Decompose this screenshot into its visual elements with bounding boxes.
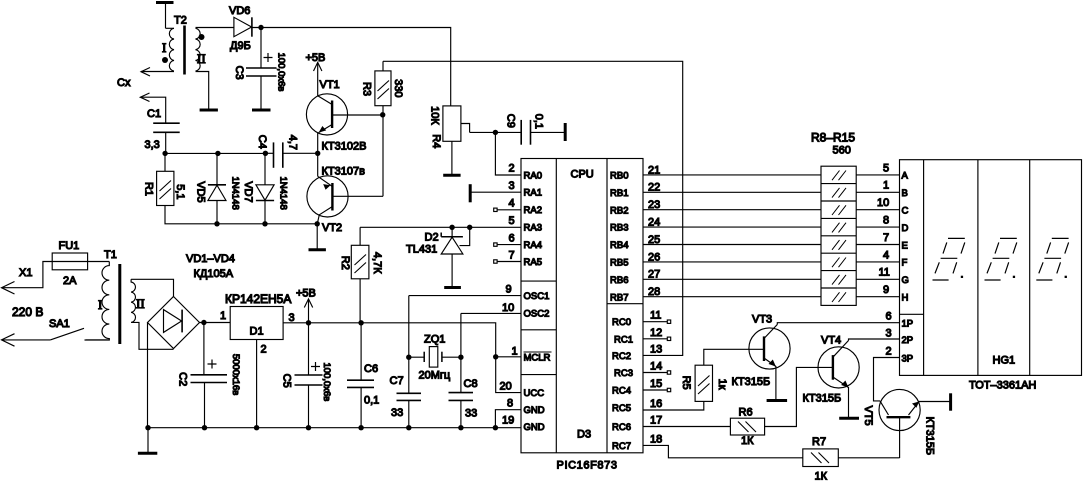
svg-text:D2: D2	[425, 232, 439, 244]
junction C6 on rail	[358, 425, 363, 430]
svg-text:7: 7	[509, 250, 515, 262]
svg-text:27: 27	[648, 269, 660, 281]
capacitor C4	[265, 142, 317, 167]
svg-text:RA3: RA3	[524, 223, 542, 234]
svg-text:24: 24	[648, 217, 660, 229]
svg-text:4: 4	[509, 198, 515, 210]
svg-text:T1: T1	[104, 249, 117, 261]
svg-text:1К: 1К	[815, 471, 828, 483]
svg-text:VD6: VD6	[229, 5, 250, 17]
svg-text:2: 2	[886, 346, 892, 358]
wire VT3 collector to 1P row	[777, 323, 899, 325]
svg-text:28: 28	[648, 286, 660, 298]
wire node row y153	[165, 152, 265, 154]
svg-text:VD5: VD5	[194, 181, 206, 202]
svg-text:11: 11	[879, 267, 890, 279]
svg-text:5: 5	[883, 162, 889, 174]
svg-text:GND: GND	[524, 422, 545, 433]
stub RC1 pin12	[643, 337, 671, 340]
capacitor C6	[347, 323, 374, 428]
junction crystal right / C8	[458, 355, 463, 360]
transformer T1 winding I	[85, 262, 110, 341]
svg-text:RB1: RB1	[610, 188, 628, 199]
svg-text:C1: C1	[147, 108, 161, 120]
svg-text:4,7: 4,7	[287, 135, 299, 150]
svg-text:1: 1	[883, 180, 889, 192]
MCU D3 box	[521, 159, 643, 453]
svg-text:RC4: RC4	[612, 386, 631, 397]
junction TL431 cathode on RA3 row	[449, 225, 454, 230]
svg-text:10К: 10К	[429, 106, 441, 125]
svg-text:RC5: RC5	[612, 403, 631, 414]
transistor VT2	[307, 153, 383, 224]
svg-text:UCC: UCC	[524, 388, 545, 399]
svg-text:VD1–VD4: VD1–VD4	[186, 253, 235, 265]
svg-text:1к: 1к	[716, 379, 728, 390]
junction C1 bottom	[162, 151, 167, 156]
svg-text:VT5: VT5	[862, 406, 874, 426]
wire T2 winding II bottom to ground	[196, 72, 209, 110]
stub RC3 pin14	[643, 371, 671, 374]
svg-text:GND: GND	[524, 405, 545, 416]
wire GND pin8	[495, 410, 521, 428]
svg-text:RA1: RA1	[524, 188, 542, 199]
svg-text:RA5: RA5	[524, 257, 542, 268]
left section bottom rail to VT2 collector	[165, 206, 317, 224]
junction VD6/C3	[258, 25, 263, 30]
svg-text:7: 7	[883, 232, 889, 244]
junction +5V arrow	[306, 320, 311, 325]
svg-text:2A: 2A	[63, 275, 77, 287]
bridge rectifier VD1-VD4	[148, 297, 200, 349]
svg-text:330: 330	[392, 79, 404, 97]
svg-text:10: 10	[877, 197, 889, 209]
svg-text:RB7: RB7	[610, 292, 628, 303]
svg-text:2P: 2P	[902, 335, 914, 346]
svg-text:1: 1	[512, 346, 518, 358]
svg-text:6: 6	[886, 311, 892, 323]
ground under R4	[443, 174, 460, 177]
svg-text:20: 20	[500, 381, 512, 393]
svg-text:C: C	[902, 206, 909, 217]
svg-text:X1: X1	[19, 267, 32, 279]
wire bridge minus down to ground rail	[147, 323, 149, 428]
T2 winding II polarity dot	[199, 34, 205, 40]
digit 1 seven-segment glyph	[933, 238, 965, 280]
svg-text:C3: C3	[233, 66, 245, 80]
wire OSC2 column	[460, 313, 462, 357]
ground under TL431	[444, 286, 461, 289]
wire T1 winding II bottom to bridge	[131, 322, 173, 349]
terminal X1 arrow upper prong	[2, 262, 53, 295]
svg-text:220 В: 220 В	[12, 305, 43, 319]
transformer T1 core	[118, 264, 121, 344]
svg-text:RB0: RB0	[610, 171, 628, 182]
svg-text:100,0x6в: 100,0x6в	[275, 53, 286, 92]
svg-text:ТОТ–3361АН: ТОТ–3361АН	[969, 380, 1036, 392]
resistor R3	[375, 61, 391, 115]
svg-text:HG1: HG1	[993, 355, 1016, 367]
wire RB1 row pin22	[643, 191, 821, 193]
svg-text:CPU: CPU	[571, 169, 594, 181]
wire bases column	[382, 115, 384, 197]
svg-text:VT3: VT3	[752, 314, 772, 326]
svg-text:RC7: RC7	[612, 441, 631, 452]
stub RC0 pin11	[643, 320, 671, 323]
svg-text:6: 6	[509, 233, 515, 245]
svg-text:+5В: +5В	[306, 52, 326, 64]
switch SA1	[2, 328, 110, 340]
svg-text:OSC1: OSC1	[524, 291, 550, 302]
wire T2 winding I bottom to Cx arrow	[141, 71, 174, 73]
wire RC6 row pin17 to R6	[643, 426, 730, 428]
svg-text:КД105А: КД105А	[194, 268, 234, 280]
wire VD6 cathode to top rail corner, down to R4	[252, 28, 451, 106]
svg-text:5,1: 5,1	[174, 184, 186, 199]
svg-text:RB6: RB6	[610, 275, 628, 286]
svg-text:3,3: 3,3	[145, 139, 160, 151]
svg-text:12: 12	[650, 327, 662, 339]
capacitor C2	[191, 323, 228, 428]
svg-text:R7: R7	[812, 436, 826, 448]
svg-text:4: 4	[883, 249, 889, 261]
wire RB5 row pin26	[643, 261, 821, 263]
svg-text:RA4: RA4	[524, 240, 542, 251]
stub CPU pin7 RA5	[494, 260, 521, 263]
svg-text:RC2: RC2	[612, 351, 631, 362]
svg-text:RB4: RB4	[610, 240, 628, 251]
ground under T2 winding II	[200, 109, 218, 112]
svg-text:VT2: VT2	[322, 222, 342, 234]
wire segment D row	[856, 226, 899, 228]
transistor VT4	[818, 341, 859, 418]
crystal ZQ1	[409, 347, 461, 368]
capacitor C9	[521, 120, 564, 145]
svg-text:ZQ1: ZQ1	[424, 334, 445, 346]
svg-text:R6: R6	[739, 407, 753, 419]
svg-text:2: 2	[509, 163, 515, 175]
wire FU1 to T1 winding I	[88, 261, 110, 263]
svg-text:КТ315Б: КТ315Б	[924, 416, 936, 455]
svg-text:C9: C9	[504, 114, 516, 128]
capacitor C5	[295, 323, 323, 428]
svg-text:15: 15	[650, 378, 662, 390]
transistor VT1	[306, 94, 382, 154]
wire bridge plus to D1 pin1	[200, 322, 231, 324]
display HG1 box	[900, 160, 1082, 376]
wire RC5 row pin16 to R5	[643, 401, 704, 410]
svg-text:1P: 1P	[902, 319, 914, 330]
wire CPU pin2 RA0	[495, 132, 521, 175]
svg-text:9: 9	[883, 284, 889, 296]
T2 winding I polarity dot	[162, 57, 168, 63]
resistor R6	[730, 418, 764, 435]
wire Cx lower arrow to C1	[140, 97, 165, 123]
resistor R4	[443, 106, 470, 175]
svg-text:18: 18	[650, 433, 662, 445]
transformer T2 core	[183, 26, 186, 75]
svg-text:RC1: RC1	[614, 334, 633, 345]
svg-text:33: 33	[465, 408, 477, 420]
svg-text:C8: C8	[464, 378, 478, 390]
svg-text:B: B	[902, 188, 908, 199]
svg-text:RA2: RA2	[524, 205, 542, 216]
Cx terminal arrow lower	[140, 93, 149, 102]
transformer T1 winding II	[131, 279, 135, 322]
svg-text:3: 3	[289, 312, 295, 324]
diode VD5	[208, 153, 226, 223]
svg-text:1N4148: 1N4148	[230, 176, 241, 209]
wire RB7 row pin28	[643, 296, 821, 298]
stub RC4 pin15	[643, 388, 671, 391]
wire segment H row	[856, 296, 899, 298]
junction VD7 bottom	[262, 221, 267, 226]
wire segment A row	[856, 174, 899, 176]
wire VT4 collector to 2P row	[849, 339, 900, 341]
transistor VT3	[749, 325, 790, 400]
svg-text:VT4: VT4	[821, 335, 841, 347]
svg-text:RB2: RB2	[610, 205, 628, 216]
junction MCLR column	[493, 354, 498, 359]
junction C8 on rail	[458, 425, 463, 430]
wire T1 winding II top to bridge	[131, 279, 173, 296]
svg-text:SA1: SA1	[49, 318, 70, 330]
svg-text:FU1: FU1	[59, 240, 80, 252]
wire R4 wiper row to C9	[470, 131, 522, 133]
svg-text:D1: D1	[250, 326, 264, 338]
svg-text:VD7: VD7	[242, 181, 254, 202]
svg-text:R3: R3	[361, 82, 373, 96]
junction D1 pin2 on rail	[254, 425, 259, 430]
svg-text:26: 26	[648, 251, 660, 263]
transistor VT5	[879, 389, 951, 458]
svg-text:E: E	[902, 240, 908, 251]
ground rail bottom	[148, 427, 521, 429]
wire RB3 row pin24	[643, 226, 821, 228]
svg-text:22: 22	[648, 182, 660, 194]
svg-text:9: 9	[506, 284, 512, 296]
wire D1 pin3 +5V rail to MCLR	[283, 323, 521, 357]
svg-text:II: II	[197, 51, 206, 66]
wire segment F row	[856, 261, 899, 263]
svg-text:RB3: RB3	[610, 223, 628, 234]
svg-text:C7: C7	[390, 375, 404, 387]
wire segment B row	[856, 191, 899, 193]
svg-text:RC3: RC3	[614, 368, 633, 379]
C2 polarity plus	[208, 360, 217, 369]
svg-text:8: 8	[507, 398, 513, 410]
wire T2 winding II top to VD6 anode	[196, 27, 234, 29]
svg-text:0,1: 0,1	[364, 395, 379, 407]
svg-text:R2: R2	[339, 256, 351, 270]
junction crystal left / C7	[406, 355, 411, 360]
svg-text:RA0: RA0	[524, 171, 542, 182]
svg-text:21: 21	[648, 164, 660, 176]
diode VD6	[234, 17, 252, 36]
svg-text:RC0: RC0	[612, 317, 631, 328]
svg-text:PIC16F873: PIC16F873	[557, 460, 618, 472]
svg-text:2: 2	[261, 344, 267, 356]
svg-text:R8–R15: R8–R15	[811, 131, 855, 145]
junction wiper row / pin2 wire	[493, 130, 498, 135]
wire 3P row to VT5 collector	[874, 358, 900, 401]
terminal X1 arrow lower prong	[2, 334, 15, 347]
svg-text:10: 10	[502, 302, 514, 314]
svg-text:8: 8	[883, 215, 889, 227]
wire RB4 row pin25	[643, 244, 821, 246]
svg-text:КТ3102В: КТ3102В	[322, 141, 367, 153]
svg-text:MCLR: MCLR	[524, 353, 551, 364]
wire CPU pin3 RA1	[472, 191, 522, 193]
svg-text:F: F	[902, 258, 908, 269]
transformer T2 winding I	[166, 28, 175, 71]
junction VD5 bottom	[214, 221, 219, 226]
C3 polarity plus	[264, 53, 273, 62]
svg-text:A: A	[902, 171, 909, 182]
svg-text:I: I	[162, 40, 166, 55]
regulator D1 KP142EH5A	[230, 307, 283, 340]
wire RB2 row pin23	[643, 209, 821, 211]
wire R6 to VT4 base	[765, 367, 833, 426]
wire segment G row	[856, 278, 899, 280]
svg-text:1: 1	[220, 310, 226, 322]
digit 3 seven-segment glyph	[1036, 238, 1068, 280]
ground under VT2	[309, 248, 326, 251]
ground under C3	[252, 109, 271, 112]
ground bar on RA1 row	[469, 184, 472, 202]
ground under VT3	[767, 399, 788, 402]
resistor R5	[695, 349, 764, 401]
junction R3 bottom / bases	[380, 112, 385, 117]
terminal bar top-left	[156, 3, 174, 29]
junction pin8/pin19 on rail	[493, 425, 498, 430]
svg-text:0,1: 0,1	[533, 114, 545, 129]
svg-text:19: 19	[502, 415, 514, 427]
ground symbol bottom left	[138, 428, 157, 454]
svg-text:II: II	[136, 296, 145, 311]
svg-text:OSC2: OSC2	[524, 309, 550, 320]
shunt regulator D2 TL431	[441, 227, 470, 286]
wire RA3 row	[360, 226, 521, 228]
svg-text:100,0x6в: 100,0x6в	[321, 362, 332, 401]
svg-text:17: 17	[650, 415, 662, 427]
svg-text:33: 33	[391, 407, 403, 419]
junction C4/emitters node	[315, 151, 320, 156]
svg-text:КТ315Б: КТ315Б	[803, 393, 842, 405]
capacitor C7	[397, 357, 422, 428]
wire OSC1 column	[408, 296, 410, 358]
svg-text:5: 5	[509, 215, 515, 227]
svg-text:20Мгц: 20Мгц	[419, 370, 451, 382]
wire segment C row	[856, 209, 899, 211]
svg-text:11: 11	[650, 310, 661, 322]
digit 2 seven-segment glyph	[985, 238, 1017, 280]
svg-text:R4: R4	[430, 134, 442, 148]
wire OSC1 row	[409, 295, 521, 297]
wire OSC2 row	[461, 312, 521, 314]
Cx terminal arrow upper	[141, 68, 150, 77]
pin name MCLR with overbar	[524, 352, 552, 364]
svg-text:G: G	[902, 275, 909, 286]
junction C2 on rail	[202, 425, 207, 430]
svg-text:4,7К: 4,7К	[371, 252, 383, 274]
junction R2/C6 column on +5V rail	[358, 320, 363, 325]
svg-text:Cx: Cx	[117, 77, 131, 89]
wire segment E row	[856, 244, 899, 246]
ground bar right of VT5	[949, 393, 952, 410]
capacitor C3	[246, 68, 277, 109]
svg-text:14: 14	[650, 361, 662, 373]
wire RB6 row pin27	[643, 278, 821, 280]
svg-text:T2: T2	[174, 15, 187, 27]
wire D1 pin2 to ground rail	[256, 340, 258, 428]
svg-text:TL431: TL431	[406, 244, 437, 256]
ground under VT4	[839, 417, 859, 420]
junction C7 on rail	[406, 425, 411, 430]
resistor R2	[351, 227, 369, 322]
capacitor C1	[153, 123, 180, 153]
ground bar right of C9	[564, 123, 567, 141]
junction VD5 top	[215, 151, 220, 156]
transformer T2 winding II	[196, 28, 201, 71]
wire VT2 collector to ground	[316, 224, 318, 249]
svg-text:13: 13	[650, 343, 662, 355]
junction TL431 ref on RA3 row	[467, 225, 472, 230]
svg-text:+5В: +5В	[296, 288, 316, 300]
C5 polarity plus	[311, 362, 320, 371]
svg-text:I: I	[98, 297, 102, 312]
junction bridge plus / C2	[201, 320, 206, 325]
junction rail left end	[145, 425, 150, 430]
svg-text:5000x16в: 5000x16в	[230, 354, 241, 396]
svg-text:C4: C4	[256, 135, 268, 149]
svg-text:1N4148: 1N4148	[278, 176, 289, 209]
svg-text:C2: C2	[177, 372, 189, 386]
svg-text:D3: D3	[577, 429, 591, 441]
resistor network R8-R15 stack	[821, 166, 856, 305]
stub CPU pin6 RA4	[494, 243, 521, 246]
svg-text:560: 560	[833, 145, 851, 157]
wire C3 top	[260, 28, 262, 69]
svg-text:R1: R1	[143, 182, 155, 196]
wire UCC pin20 from +5V column	[496, 357, 521, 393]
svg-text:КР142ЕН5А: КР142ЕН5А	[225, 292, 291, 306]
resistor R1	[157, 153, 174, 205]
power +5V arrow above VT1	[314, 62, 322, 95]
stub CPU pin4 RA2	[494, 208, 521, 211]
wire R3 top to RC2 column	[383, 61, 683, 355]
svg-text:R5: R5	[680, 376, 692, 390]
wire RB0 row pin21	[643, 174, 821, 176]
wire RC7 pin18 to R7	[643, 445, 803, 457]
junction VT2 collector	[315, 221, 320, 226]
svg-text:23: 23	[648, 199, 660, 211]
diode VD7	[256, 153, 274, 224]
svg-text:3P: 3P	[902, 354, 914, 365]
svg-text:C6: C6	[364, 363, 378, 375]
svg-text:3: 3	[886, 328, 892, 340]
svg-text:КТ315Б: КТ315Б	[732, 376, 771, 388]
fuse FU1	[52, 253, 87, 270]
svg-text:RB5: RB5	[610, 258, 628, 269]
junction C5 on rail	[306, 425, 311, 430]
svg-text:VT1: VT1	[320, 79, 340, 91]
junction VD7/C4	[263, 151, 268, 156]
svg-text:16: 16	[650, 398, 662, 410]
svg-text:Д9Б: Д9Б	[230, 40, 251, 52]
capacitor C8	[449, 357, 474, 428]
svg-text:25: 25	[648, 234, 660, 246]
